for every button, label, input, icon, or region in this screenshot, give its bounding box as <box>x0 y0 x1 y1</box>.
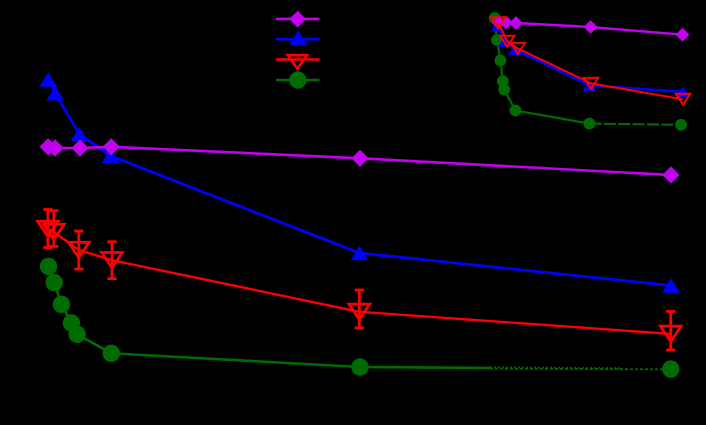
red error bar 1 <box>43 210 52 248</box>
red error bar 6 <box>666 311 675 350</box>
red open triangle marker 4 <box>102 253 123 268</box>
inset blue triangle 4 <box>583 80 596 91</box>
green circle marker 8 <box>662 360 679 377</box>
green circle marker 3 <box>53 296 70 313</box>
green circle marker 2 <box>46 274 63 291</box>
green series dashed line segment <box>490 368 671 371</box>
green circle marker 7 <box>351 358 368 375</box>
inset green line 1 <box>515 111 589 124</box>
inset blue line <box>498 26 684 92</box>
inset red open triangle 3 <box>511 43 525 54</box>
blue triangle marker 5 <box>351 246 369 260</box>
inset green circle 4 <box>497 75 509 87</box>
red open triangle marker 3 <box>69 242 90 257</box>
inset blue triangle 3 <box>508 44 521 55</box>
inset red open triangle 4 <box>584 78 598 89</box>
inset magenta diamond 3 <box>509 16 523 30</box>
red error bar 2 <box>49 211 58 247</box>
inset magenta diamond 1 <box>492 16 506 30</box>
blue series line <box>48 80 671 286</box>
inset green circle 3 <box>495 55 507 67</box>
inset green solid line <box>495 18 516 111</box>
magenta diamond marker 5 <box>351 150 368 167</box>
inset red open triangle 1 <box>491 17 505 28</box>
magenta diamond marker 1 <box>40 138 57 155</box>
inset green circle 1 <box>489 12 501 24</box>
inset green circle 5 <box>498 84 510 96</box>
green circle marker 6 <box>103 345 120 362</box>
inset green circle 2 <box>491 34 503 46</box>
legend blue triangle <box>289 31 307 45</box>
legend entry red line <box>276 58 320 60</box>
magenta series line <box>48 147 671 175</box>
legend entry green line <box>276 79 320 82</box>
red error bar 4 <box>107 242 116 279</box>
magenta diamond marker 4 <box>103 138 120 155</box>
inset red open triangle 5 <box>676 94 690 105</box>
legend magenta diamond <box>289 11 306 28</box>
blue triangle marker 1 <box>39 72 57 86</box>
inset blue triangle 5 <box>676 86 689 97</box>
inset magenta diamond 2 <box>499 16 513 30</box>
blue triangle marker 3 <box>71 127 89 141</box>
inset magenta line <box>499 23 683 35</box>
blue triangle marker 2 <box>46 86 64 100</box>
inset magenta diamond 5 <box>676 28 690 42</box>
green circle marker 5 <box>68 326 85 343</box>
legend entry magenta line <box>276 18 320 21</box>
blue triangle marker 6 <box>662 278 680 292</box>
red open triangle marker 6 <box>660 326 681 341</box>
inset green dashed line 2 <box>589 124 681 125</box>
green series dotted line segment <box>490 367 622 368</box>
inset blue triangle 2 <box>498 36 511 47</box>
green series solid line <box>49 266 491 368</box>
inset red open triangle 2 <box>500 36 514 47</box>
blue triangle marker 4 <box>102 149 120 163</box>
magenta diamond marker 3 <box>71 139 88 156</box>
green circle marker 4 <box>63 314 80 331</box>
legend entry blue line <box>276 38 320 41</box>
inset red line <box>498 23 683 100</box>
red open triangle marker 2 <box>44 224 65 239</box>
inset green circle 8 <box>675 119 687 131</box>
red error bar 3 <box>74 231 83 269</box>
red error bar 5 <box>355 290 364 328</box>
magenta diamond marker 2 <box>47 139 64 156</box>
inset magenta diamond 4 <box>584 20 598 34</box>
red open triangle marker 1 <box>38 221 59 236</box>
magenta diamond marker 6 <box>662 166 679 183</box>
legend red open triangle <box>288 55 307 69</box>
green circle marker 1 <box>40 258 57 275</box>
legend green circle <box>289 71 306 88</box>
inset green circle 6 <box>510 105 522 117</box>
inset green circle 7 <box>584 118 596 130</box>
inset blue triangle 1 <box>491 21 504 32</box>
red open triangle marker 5 <box>349 304 370 319</box>
red series line <box>48 229 671 334</box>
